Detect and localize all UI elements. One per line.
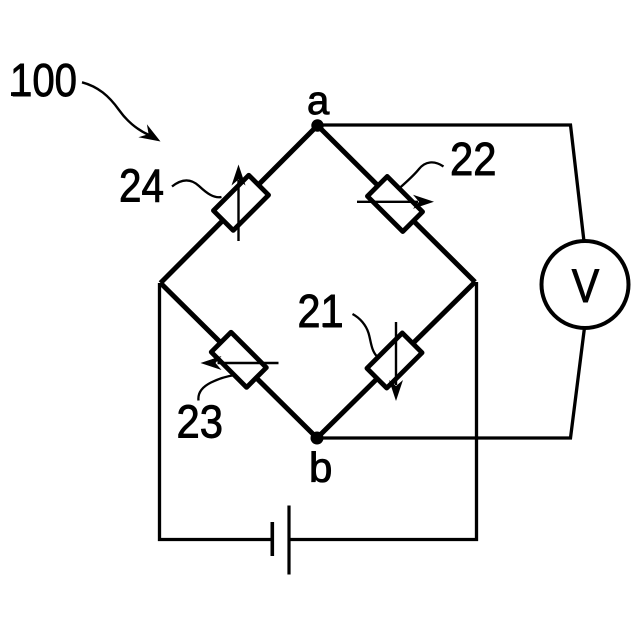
svg-text:a: a: [307, 79, 330, 123]
leader from label 22: [398, 162, 444, 189]
variable arrow of resistor 23 (left): [201, 356, 279, 370]
wire bridge edge right-b: [317, 282, 475, 438]
variable arrow of resistor 22 (right): [357, 195, 434, 209]
svg-text:100: 100: [10, 54, 77, 106]
svg-text:22: 22: [450, 133, 497, 185]
node b: [311, 432, 324, 445]
voltmeter V1 circle: [542, 241, 629, 328]
node a: [311, 119, 323, 131]
svg-text:24: 24: [119, 160, 164, 212]
wire right vertical: [289, 282, 476, 540]
resistor 24: [213, 175, 268, 230]
svg-text:b: b: [309, 444, 332, 491]
wire bottom b to voltmeter: [317, 328, 585, 439]
variable arrow of resistor 24 (up): [232, 165, 246, 242]
resistor 21: [367, 333, 422, 388]
svg-text:23: 23: [177, 396, 224, 448]
variable arrow of resistor 21 (down): [389, 322, 403, 401]
svg-text:21: 21: [298, 285, 344, 337]
wire top a to voltmeter: [318, 125, 585, 242]
battery short plate: [270, 522, 274, 556]
battery long plate: [287, 506, 290, 575]
resistor 22: [367, 176, 422, 231]
resistor 23: [211, 332, 266, 387]
leader from label 23: [198, 375, 233, 400]
label 100: [10, 54, 77, 106]
wire left vertical: [160, 283, 271, 540]
svg-text:V: V: [572, 259, 600, 312]
wire bridge edge a-left: [161, 126, 318, 284]
label 21: [298, 285, 344, 337]
leader from label 21: [353, 314, 378, 357]
leader from label 24: [172, 180, 222, 197]
wire bridge edge left-b: [161, 283, 318, 438]
wire bridge edge a-right: [318, 126, 476, 283]
leader arrow from label 100: [82, 82, 161, 141]
